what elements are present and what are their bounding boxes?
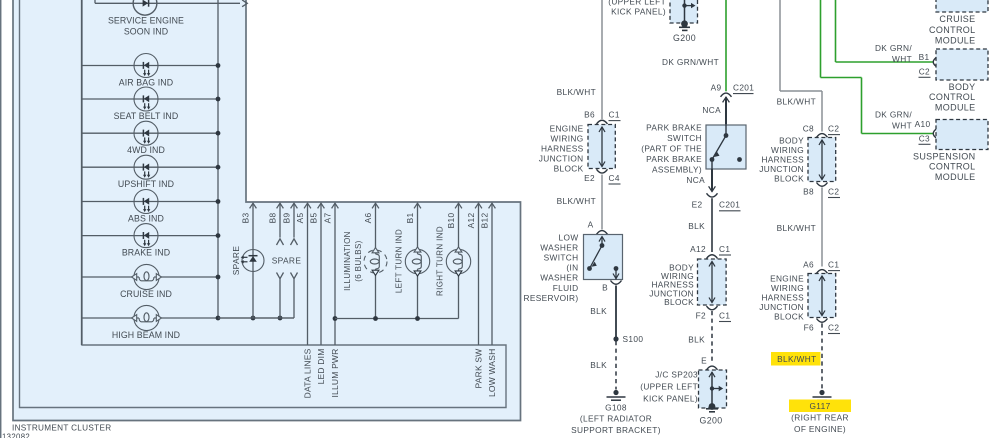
svg-text:ENGINE: ENGINE	[770, 274, 804, 284]
svg-text:4WD IND: 4WD IND	[127, 145, 165, 155]
svg-text:CONTROL: CONTROL	[929, 92, 975, 102]
svg-text:B1: B1	[919, 52, 930, 62]
svg-text:SOON IND: SOON IND	[124, 27, 168, 37]
svg-text:B5: B5	[309, 212, 319, 223]
svg-text:PARK BRAKE: PARK BRAKE	[646, 154, 702, 164]
svg-text:SWITCH: SWITCH	[544, 253, 579, 263]
svg-text:SPARE: SPARE	[272, 256, 302, 266]
svg-text:AIR BAG IND: AIR BAG IND	[119, 78, 173, 88]
svg-text:OF ENGINE): OF ENGINE)	[794, 424, 846, 434]
svg-text:J/C SP203: J/C SP203	[655, 370, 698, 380]
svg-text:RESERVOIR): RESERVOIR)	[524, 293, 579, 303]
svg-text:B1: B1	[405, 212, 415, 223]
svg-text:C201: C201	[733, 83, 754, 93]
svg-text:BLOCK: BLOCK	[554, 164, 584, 174]
svg-text:JUNCTION: JUNCTION	[759, 302, 804, 312]
svg-text:G200: G200	[700, 416, 723, 426]
svg-text:B10: B10	[446, 212, 456, 228]
svg-text:G117: G117	[809, 401, 830, 411]
svg-text:NCA: NCA	[686, 175, 705, 185]
svg-text:C2: C2	[828, 187, 839, 197]
svg-text:WASHER: WASHER	[540, 243, 578, 253]
svg-text:WHT: WHT	[892, 54, 912, 64]
svg-text:MODULE: MODULE	[935, 102, 976, 112]
svg-text:FLUID: FLUID	[553, 283, 579, 293]
svg-text:C201: C201	[719, 200, 740, 210]
svg-text:(RIGHT REAR: (RIGHT REAR	[791, 413, 849, 423]
svg-text:HIGH BEAM IND: HIGH BEAM IND	[112, 330, 180, 340]
svg-text:LEFT TURN IND: LEFT TURN IND	[395, 229, 404, 293]
svg-text:ILLUM PWR: ILLUM PWR	[330, 349, 340, 398]
svg-text:SWITCH: SWITCH	[667, 133, 702, 143]
svg-text:B6: B6	[584, 110, 595, 120]
svg-text:BLK/WHT: BLK/WHT	[777, 354, 816, 364]
svg-text:G200: G200	[673, 33, 696, 43]
svg-text:LOW: LOW	[559, 233, 579, 243]
svg-text:BLOCK: BLOCK	[774, 174, 804, 184]
svg-text:C1: C1	[828, 260, 839, 270]
svg-text:BLK: BLK	[688, 335, 705, 345]
svg-text:B9: B9	[282, 212, 292, 223]
svg-text:JUNCTION: JUNCTION	[539, 154, 584, 164]
svg-text:SUPPORT BRACKET): SUPPORT BRACKET)	[571, 425, 661, 435]
svg-text:KICK PANEL): KICK PANEL)	[611, 7, 666, 17]
svg-text:BLK: BLK	[590, 306, 607, 316]
svg-text:JUNCTION: JUNCTION	[759, 164, 804, 174]
svg-text:HARNESS: HARNESS	[541, 144, 584, 154]
svg-text:G108: G108	[605, 403, 627, 413]
svg-text:C3: C3	[919, 134, 930, 144]
svg-text:CONTROL: CONTROL	[929, 162, 975, 172]
svg-text:SEAT BELT IND: SEAT BELT IND	[114, 111, 179, 121]
svg-text:A10: A10	[915, 119, 931, 129]
svg-text:C1: C1	[719, 244, 730, 254]
svg-text:ABS IND: ABS IND	[128, 214, 164, 224]
svg-text:F2: F2	[696, 311, 706, 321]
svg-text:B: B	[602, 283, 608, 293]
svg-text:HARNESS: HARNESS	[761, 155, 804, 165]
svg-text:A5: A5	[295, 212, 305, 223]
svg-text:C1: C1	[719, 311, 730, 321]
svg-text:BLK: BLK	[590, 360, 607, 370]
svg-text:BRAKE IND: BRAKE IND	[122, 248, 170, 258]
svg-text:WIRING: WIRING	[551, 134, 584, 144]
svg-text:A9: A9	[711, 83, 722, 93]
svg-text:DK GRN/: DK GRN/	[875, 110, 912, 120]
svg-text:MODULE: MODULE	[935, 172, 976, 182]
svg-text:A: A	[588, 220, 594, 230]
svg-text:LOW WASH: LOW WASH	[487, 349, 497, 398]
svg-text:BLK/WHT: BLK/WHT	[777, 223, 816, 233]
svg-text:BLOCK: BLOCK	[774, 312, 804, 322]
svg-text:C2: C2	[828, 124, 839, 134]
svg-text:E: E	[701, 356, 707, 366]
svg-text:KICK PANEL): KICK PANEL)	[643, 394, 698, 404]
svg-text:SUSPENSION: SUSPENSION	[913, 152, 976, 162]
svg-text:DK GRN/: DK GRN/	[875, 43, 912, 53]
svg-text:B12: B12	[480, 212, 490, 228]
svg-text:B3: B3	[241, 212, 251, 223]
svg-text:A12: A12	[690, 244, 706, 254]
svg-text:A6: A6	[363, 212, 373, 223]
svg-text:CRUISE IND: CRUISE IND	[120, 289, 172, 299]
svg-text:ASSEMBLY): ASSEMBLY)	[652, 164, 702, 174]
svg-text:132082: 132082	[2, 433, 30, 438]
svg-text:WIRING: WIRING	[771, 283, 804, 293]
svg-text:(IN: (IN	[566, 263, 578, 273]
svg-text:WIRING: WIRING	[771, 145, 804, 155]
svg-text:C8: C8	[803, 124, 814, 134]
svg-text:C2: C2	[919, 67, 930, 77]
svg-text:A12: A12	[466, 212, 476, 228]
svg-text:RIGHT TURN IND: RIGHT TURN IND	[436, 226, 445, 296]
svg-text:S100: S100	[623, 334, 644, 344]
svg-text:(UPPER LEFT: (UPPER LEFT	[640, 382, 698, 392]
svg-text:SPARE: SPARE	[231, 246, 241, 276]
svg-text:PARK BRAKE: PARK BRAKE	[646, 122, 702, 132]
svg-text:BLK/WHT: BLK/WHT	[557, 87, 596, 97]
svg-text:BLOCK: BLOCK	[664, 297, 694, 307]
svg-text:E2: E2	[692, 200, 703, 210]
svg-text:BLK/WHT: BLK/WHT	[777, 97, 816, 107]
svg-text:BLK: BLK	[688, 221, 705, 231]
svg-text:C4: C4	[609, 173, 620, 183]
svg-text:A6: A6	[803, 260, 814, 270]
svg-text:BLK/WHT: BLK/WHT	[557, 196, 596, 206]
svg-text:C2: C2	[828, 323, 839, 333]
svg-text:MODULE: MODULE	[935, 36, 976, 46]
svg-text:F6: F6	[804, 323, 814, 333]
svg-text:HARNESS: HARNESS	[761, 293, 804, 303]
svg-text:BODY: BODY	[949, 82, 976, 92]
svg-text:WHT: WHT	[892, 121, 912, 131]
svg-text:BODY: BODY	[779, 136, 804, 146]
svg-text:NCA: NCA	[702, 105, 721, 115]
svg-text:DATA LINES: DATA LINES	[303, 348, 313, 398]
svg-text:UPSHIFT IND: UPSHIFT IND	[118, 179, 174, 189]
svg-text:INSTRUMENT CLUSTER: INSTRUMENT CLUSTER	[12, 424, 111, 433]
svg-text:WASHER: WASHER	[540, 273, 578, 283]
svg-text:SERVICE ENGINE: SERVICE ENGINE	[108, 15, 184, 25]
svg-text:B8: B8	[803, 187, 814, 197]
svg-text:C1: C1	[609, 110, 620, 120]
svg-text:A7: A7	[323, 212, 333, 223]
svg-text:(LEFT RADIATOR: (LEFT RADIATOR	[580, 414, 652, 424]
svg-text:(PART OF THE: (PART OF THE	[641, 143, 702, 153]
svg-text:CONTROL: CONTROL	[929, 25, 975, 35]
svg-text:LED DIM: LED DIM	[316, 349, 326, 385]
svg-text:PARK SW: PARK SW	[474, 349, 484, 389]
svg-text:(6 BULBS): (6 BULBS)	[354, 240, 363, 281]
svg-text:ENGINE: ENGINE	[550, 124, 584, 134]
svg-text:CRUISE: CRUISE	[939, 14, 975, 24]
svg-text:DK GRN/WHT: DK GRN/WHT	[662, 57, 719, 67]
svg-text:E2: E2	[584, 173, 595, 183]
svg-text:ILLUMINATION: ILLUMINATION	[343, 231, 352, 291]
svg-text:B8: B8	[268, 212, 278, 223]
